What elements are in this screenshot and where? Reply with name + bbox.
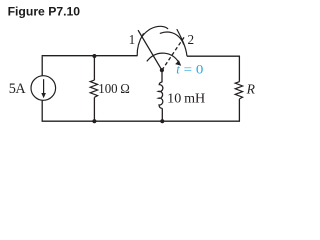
switch motion arrowhead bbox=[175, 60, 181, 65]
svg-text:2: 2 bbox=[188, 32, 195, 47]
wire resistor 100 ohm top lead bbox=[93, 56, 95, 80]
current source arrow shaft bbox=[43, 79, 45, 94]
wire top rail left bbox=[42, 55, 138, 57]
switch motion arrow arc bbox=[147, 53, 179, 62]
svg-text:Figure P7.10: Figure P7.10 bbox=[8, 4, 81, 18]
wire inductor top lead from pivot bbox=[161, 70, 163, 82]
junction dot bottom rail right bbox=[160, 119, 164, 123]
wire right vertical bottom bbox=[238, 99, 240, 121]
svg-text:10 mH: 10 mH bbox=[167, 91, 205, 106]
switch contact 2 slash bbox=[177, 30, 187, 56]
svg-text:1: 1 bbox=[129, 32, 136, 47]
inductor 10 mH coil bbox=[158, 82, 162, 108]
resistor R zigzag bbox=[235, 82, 242, 99]
svg-text:= 0: = 0 bbox=[184, 63, 204, 77]
svg-text:R: R bbox=[246, 81, 256, 96]
wire resistor 100 ohm bottom lead bbox=[93, 97, 95, 121]
switch throw inner arc bbox=[160, 32, 183, 44]
resistor 100 ohm zigzag bbox=[90, 80, 97, 97]
switch contact 1 slash bbox=[137, 34, 143, 56]
svg-text:t: t bbox=[176, 63, 180, 77]
current source arrowhead bbox=[41, 93, 46, 98]
wire bottom rail bbox=[42, 120, 240, 122]
junction dot top rail bbox=[92, 54, 96, 58]
junction dot bottom rail left bbox=[92, 119, 96, 123]
switch pivot dot bbox=[160, 68, 164, 72]
svg-text:A: A bbox=[15, 81, 26, 97]
switch throw outer arc bbox=[142, 26, 168, 36]
switch blade (position 1) bbox=[138, 31, 162, 71]
switch dashed blade to position 2 bbox=[162, 36, 185, 70]
svg-text:100 Ω: 100 Ω bbox=[98, 81, 130, 96]
wire left vertical top bbox=[41, 56, 43, 76]
wire top rail right bbox=[187, 55, 240, 57]
wire right vertical top bbox=[238, 56, 240, 81]
wire inductor bottom lead bbox=[161, 108, 163, 121]
wire left vertical bottom bbox=[41, 100, 43, 121]
current source I1 circle bbox=[31, 76, 56, 101]
